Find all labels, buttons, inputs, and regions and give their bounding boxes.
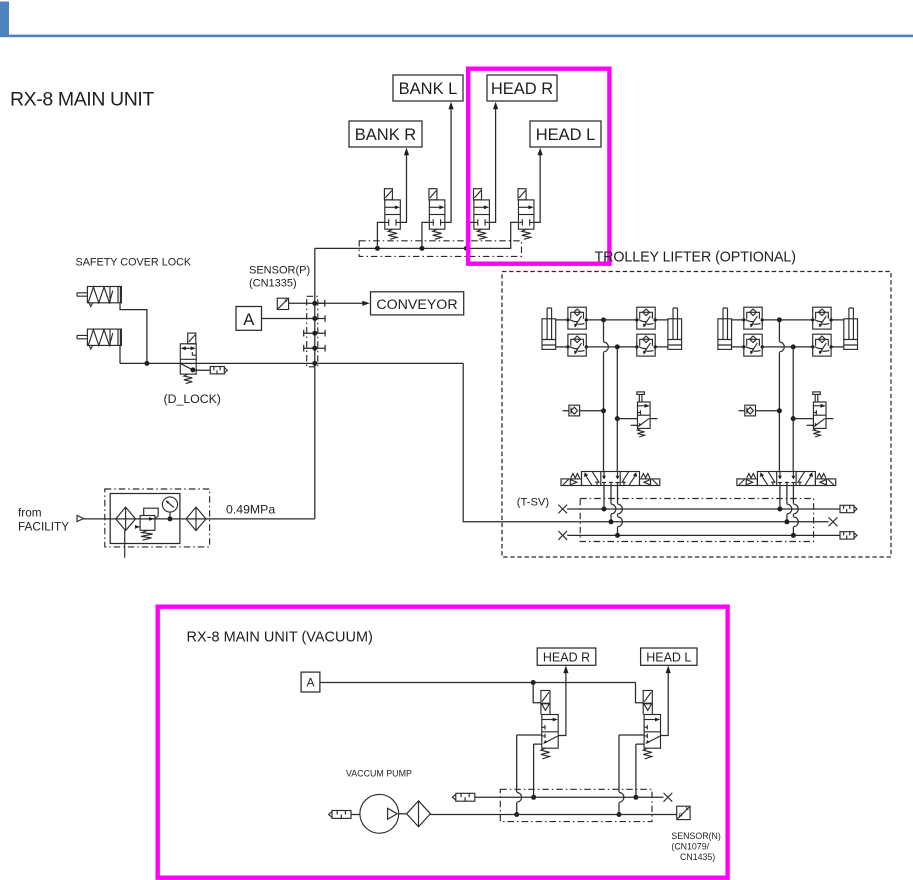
svg-text:CN1435): CN1435) [680,852,715,862]
svg-text:HEAD L: HEAD L [646,651,691,665]
svg-text:RX-8 MAIN UNIT (VACUUM): RX-8 MAIN UNIT (VACUUM) [187,630,373,646]
svg-text:from: from [18,506,42,520]
svg-text:(T-SV): (T-SV) [517,497,550,509]
svg-text:TROLLEY LIFTER (OPTIONAL): TROLLEY LIFTER (OPTIONAL) [595,250,796,266]
svg-text:BANK L: BANK L [399,80,458,98]
svg-text:(D_LOCK): (D_LOCK) [164,392,221,406]
svg-text:RX-8 MAIN UNIT: RX-8 MAIN UNIT [10,89,154,111]
svg-text:HEAD L: HEAD L [536,126,596,144]
svg-text:SAFETY COVER LOCK: SAFETY COVER LOCK [76,257,192,269]
svg-text:FACILITY: FACILITY [18,520,69,534]
svg-text:CONVEYOR: CONVEYOR [376,297,457,313]
svg-text:A: A [306,676,314,690]
svg-text:(CN1335): (CN1335) [249,278,297,290]
svg-text:HEAD R: HEAD R [491,80,553,98]
svg-text:SENSOR(N): SENSOR(N) [671,831,720,841]
svg-text:(CN1079/: (CN1079/ [671,842,709,852]
svg-text:VACCUM PUMP: VACCUM PUMP [346,769,412,779]
svg-text:BANK R: BANK R [355,126,417,144]
svg-text:HEAD R: HEAD R [543,651,590,665]
svg-text:SENSOR(P): SENSOR(P) [249,265,310,277]
svg-text:P: P [679,814,683,820]
svg-text:A: A [243,311,254,329]
svg-text:0.49MPa: 0.49MPa [226,503,275,517]
